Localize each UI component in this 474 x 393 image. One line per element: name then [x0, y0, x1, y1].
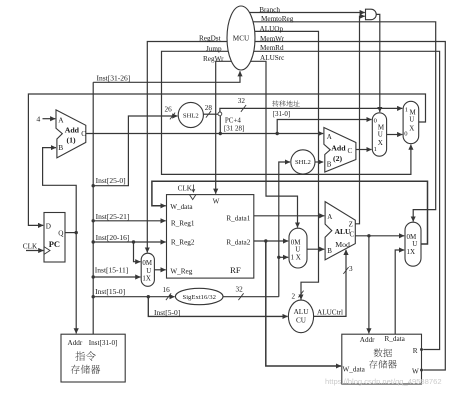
wire ALU C result — [355, 235, 404, 237]
bus Inst[31-0] vertical — [92, 82, 94, 334]
svg-text:RegWr: RegWr — [203, 55, 224, 63]
wire Zero to AND — [355, 16, 365, 224]
svg-text:A: A — [327, 213, 332, 221]
wire PCSrc (AND out) — [376, 14, 380, 112]
wire imm to SHL2 — [279, 162, 290, 297]
tick 3 — [343, 267, 348, 274]
svg-text:U: U — [412, 240, 417, 248]
svg-text:R_data1: R_data1 — [226, 215, 250, 223]
svg-text:32: 32 — [238, 97, 246, 105]
svg-text:R_data: R_data — [385, 335, 406, 343]
svg-text:R_Reg1: R_Reg1 — [171, 219, 195, 227]
register file RF — [167, 195, 254, 279]
svg-text:B: B — [58, 143, 63, 152]
node Inst[15-11] — [92, 275, 95, 278]
clock arrow RF — [192, 185, 195, 193]
svg-text:R_data2: R_data2 — [226, 239, 250, 247]
wire RegDst — [147, 42, 241, 253]
svg-text:https://blog.csdn.net/qq_49588: https://blog.csdn.net/qq_49588762 — [325, 377, 442, 386]
svg-text:W_Reg: W_Reg — [170, 267, 192, 275]
svg-text:Inst[25-21]: Inst[25-21] — [96, 212, 130, 221]
wire Inst[25-0] — [93, 116, 177, 186]
svg-text:32: 32 — [236, 285, 244, 293]
svg-text:Inst[31-26]: Inst[31-26] — [97, 74, 131, 83]
svg-text:1X: 1X — [142, 276, 150, 283]
wire ALUSrc mux to ALU B — [307, 248, 324, 250]
ALU control unit ALU CU — [288, 300, 313, 333]
node W port — [420, 369, 423, 372]
wire ALUOp — [241, 31, 319, 299]
svg-text:CU: CU — [296, 317, 307, 325]
wire MemtoReg — [241, 22, 436, 222]
svg-text:Addr: Addr — [68, 339, 83, 347]
svg-text:Inst[31-0]: Inst[31-0] — [89, 339, 118, 347]
svg-text:(2): (2) — [333, 154, 342, 163]
svg-text:ALUOp: ALUOp — [260, 25, 284, 33]
svg-text:CLK: CLK — [23, 242, 38, 250]
svg-text:1: 1 — [374, 146, 377, 153]
wire Inst[20-16] — [93, 241, 166, 243]
svg-text:4: 4 — [36, 114, 40, 123]
wire muxA out — [387, 134, 403, 136]
svg-text:PC+4: PC+4 — [225, 116, 242, 124]
wire Jump — [162, 51, 411, 174]
wire W_data return — [152, 181, 428, 244]
svg-text:W_data: W_data — [170, 203, 193, 211]
node PC+4 branch to jump concat — [219, 132, 222, 135]
wire jump address — [220, 108, 402, 112]
label 存储器 (imem) — [71, 365, 100, 374]
tick 32 jump — [241, 105, 246, 112]
svg-text:Inst[25-0]: Inst[25-0] — [96, 176, 126, 185]
tick 2 — [298, 291, 303, 298]
svg-text:W: W — [213, 197, 220, 205]
svg-text:26: 26 — [165, 105, 173, 113]
mux MemtoReg — [405, 222, 421, 266]
node R_data2 branch — [264, 239, 267, 242]
wire RegWr — [216, 61, 241, 194]
svg-text:Q: Q — [58, 230, 64, 238]
svg-text:Inst[20-16]: Inst[20-16] — [96, 233, 130, 242]
svg-text:Add: Add — [331, 143, 346, 152]
wire R_data1 to ALU A — [254, 215, 324, 217]
svg-text:1 X: 1 X — [291, 253, 301, 261]
wire R_data riser — [395, 250, 404, 334]
node PC Q junction — [75, 231, 78, 234]
svg-text:MCU: MCU — [233, 35, 250, 43]
shifter SHL2 (branch) — [291, 150, 315, 174]
wire Inst[5-0] — [148, 297, 287, 317]
wire ALUCtrl riser — [314, 250, 346, 317]
svg-text:ALUCtrl: ALUCtrl — [317, 308, 343, 316]
wire SHL2 to Add2 B — [315, 161, 323, 163]
clock triangle PC — [44, 247, 50, 255]
svg-text:Branch: Branch — [259, 6, 280, 14]
svg-text:A: A — [58, 116, 64, 125]
svg-text:B: B — [327, 247, 332, 255]
wire Inst[20-16] to RegDst mux — [134, 242, 141, 262]
svg-text:RF: RF — [230, 265, 241, 275]
svg-text:D: D — [46, 223, 51, 231]
node PC+4 branch to branch mux — [276, 132, 279, 135]
wire Inst[15-11] — [93, 276, 140, 278]
svg-text:Add: Add — [65, 125, 80, 134]
wire PC+4 — [86, 133, 323, 135]
label 转移地址 — [272, 100, 299, 106]
wire ALUSrc — [241, 61, 298, 227]
mux jump — [403, 101, 419, 143]
svg-text:RegDst: RegDst — [199, 34, 221, 42]
node Inst[5-0] — [147, 295, 150, 298]
svg-text:A: A — [327, 133, 332, 141]
mux ALUSrc — [289, 228, 307, 268]
tick 28 — [206, 111, 211, 118]
wire imm to mux1 — [279, 256, 288, 258]
instruction memory box — [61, 334, 125, 382]
svg-text:U: U — [146, 268, 151, 275]
node R port — [420, 348, 423, 351]
svg-text:U: U — [378, 130, 383, 138]
data memory box — [342, 334, 422, 384]
svg-text:1X: 1X — [407, 248, 416, 256]
node Inst[20-16] to mux — [132, 240, 135, 243]
svg-text:(1): (1) — [67, 135, 76, 144]
svg-text:MemRd: MemRd — [260, 44, 284, 52]
svg-text:Mod: Mod — [335, 240, 350, 249]
wire PC+4 to mux0 — [277, 120, 371, 134]
wire PC Q out — [65, 232, 76, 234]
wire CLK into PC — [26, 250, 43, 252]
svg-text:C: C — [81, 130, 86, 138]
mux RegDst — [141, 253, 154, 286]
svg-text:SHL2: SHL2 — [295, 159, 311, 166]
wire Inst[25-21] — [93, 220, 166, 222]
svg-text:W: W — [412, 367, 419, 375]
node Inst[15-0] — [92, 295, 95, 298]
label 存储器 (dmem) — [369, 360, 397, 369]
wire PC to Add1 B loop — [43, 148, 77, 233]
svg-text:2: 2 — [292, 292, 296, 300]
svg-text:ALU: ALU — [294, 308, 310, 316]
svg-text:C: C — [348, 147, 353, 155]
label 数据 — [374, 348, 392, 357]
sign extender SigExt16/32 — [175, 288, 223, 304]
svg-text:W_data: W_data — [343, 366, 366, 374]
label 指令 — [75, 351, 95, 361]
svg-text:MemWr: MemWr — [260, 35, 285, 43]
node jump address concat circle — [218, 112, 222, 116]
svg-text:0M: 0M — [142, 260, 152, 267]
wire MemWr — [241, 42, 445, 371]
svg-text:Z: Z — [349, 221, 353, 229]
wire PC next (mux out to PC D) — [28, 94, 425, 225]
register PC — [44, 213, 65, 263]
tick 16 — [166, 293, 171, 300]
svg-text:SigExt16/32: SigExt16/32 — [182, 294, 215, 301]
svg-text:MemtoReg: MemtoReg — [261, 15, 294, 23]
wire SigExt out 32 — [223, 296, 279, 298]
svg-text:Inst[15-11]: Inst[15-11] — [95, 265, 128, 274]
control unit MCU — [227, 6, 255, 70]
svg-text:X: X — [378, 139, 383, 147]
ALU Mod — [325, 202, 355, 260]
node ALU result to Addr — [367, 234, 370, 237]
wire Branch — [241, 12, 365, 14]
wire Inst[31-26] to MCU — [93, 71, 240, 82]
svg-text:[31-0]: [31-0] — [273, 110, 291, 118]
svg-text:PC: PC — [49, 239, 60, 249]
tick 26 — [170, 113, 175, 120]
svg-text:[31 28]: [31 28] — [224, 125, 244, 133]
svg-text:Inst[5-0]: Inst[5-0] — [154, 308, 180, 317]
clock triangle RF — [190, 195, 196, 200]
wire PC to instruction memory Addr — [75, 233, 77, 334]
wire SHL2 out 28 — [203, 113, 218, 115]
svg-text:3: 3 — [349, 265, 353, 273]
wire RegDst mux out — [154, 269, 165, 271]
wire Inst[15-0] — [93, 296, 174, 298]
wire R_data2 — [254, 240, 288, 242]
adder Add(2) — [324, 128, 356, 173]
adder Add(1) — [56, 110, 86, 158]
svg-text:R_Reg2: R_Reg2 — [171, 239, 195, 247]
wire result to mem Addr — [368, 236, 370, 334]
svg-text:R: R — [413, 347, 418, 355]
svg-text:1: 1 — [405, 106, 408, 113]
svg-text:B: B — [327, 161, 332, 169]
svg-text:16: 16 — [163, 286, 171, 294]
AND gate (Branch & Zero) — [366, 9, 377, 20]
svg-text:CLK: CLK — [178, 184, 193, 192]
svg-text:C: C — [350, 231, 355, 239]
svg-text:X: X — [409, 124, 414, 132]
tick 32 imm — [238, 293, 243, 300]
wire R_data2 to W_data mem — [266, 241, 341, 366]
shifter SHL2 (jump) — [178, 102, 203, 127]
node Inst[25-0] — [92, 184, 95, 187]
wire PC+4[31-28] up — [219, 116, 221, 134]
svg-text:ALUSrc: ALUSrc — [260, 54, 284, 62]
svg-text:U: U — [295, 246, 300, 254]
wire Add2 out — [356, 149, 372, 151]
svg-text:28: 28 — [205, 104, 213, 112]
svg-text:U: U — [409, 116, 414, 124]
node imm to ALUSrc mux — [277, 256, 280, 259]
wire MemRd — [241, 51, 440, 349]
node Inst[20-16] — [92, 240, 95, 243]
svg-text:SHL2: SHL2 — [183, 112, 199, 119]
svg-text:Jump: Jump — [206, 45, 222, 53]
wire const4 to Add1 A — [43, 118, 56, 120]
mux branch (PCSrc) — [372, 113, 386, 156]
svg-text:Inst[15-0]: Inst[15-0] — [95, 287, 125, 296]
node Inst[25-21] — [92, 219, 95, 222]
svg-text:Addr: Addr — [360, 336, 375, 344]
